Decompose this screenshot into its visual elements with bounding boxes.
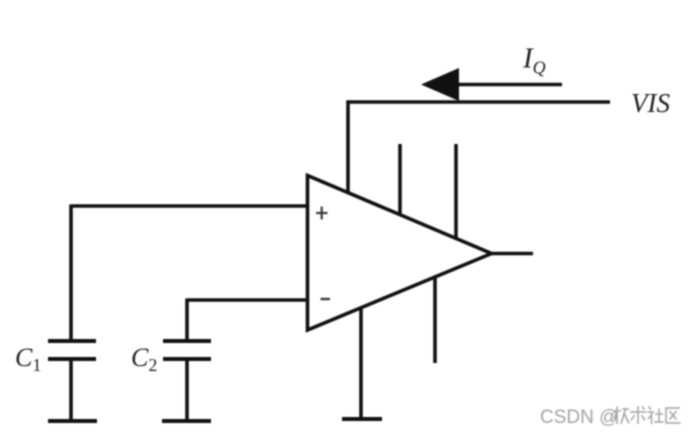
wire IQ arrow shaft xyxy=(450,83,562,87)
wire output xyxy=(491,252,533,256)
svg-text:C1: C1 xyxy=(15,343,41,375)
ground bar under C2 xyxy=(162,419,211,423)
svg-text:C2: C2 xyxy=(131,343,157,375)
wire C1 bottom vertical xyxy=(69,359,73,421)
svg-text:CSDN @: CSDN @ xyxy=(540,407,618,428)
wire bottom pin stub 2 xyxy=(433,276,437,363)
wire top pin stub 2 xyxy=(454,144,458,239)
capacitor C2 plates xyxy=(163,341,211,359)
op-amp plus sign xyxy=(316,207,328,220)
arrowhead of IQ current arrow xyxy=(421,68,459,101)
wire bottom pin to ground xyxy=(359,306,363,419)
ground bar under op-amp xyxy=(342,417,382,421)
op-amp U1 triangle xyxy=(308,176,492,331)
wire positive input horizontal xyxy=(71,204,308,208)
wire top pin stub 1 xyxy=(398,144,402,216)
svg-text:VIS: VIS xyxy=(631,88,670,118)
wire VIS net vertical drop to op-amp top edge xyxy=(346,101,350,194)
wire VIS net horizontal xyxy=(347,100,611,104)
watermark glyph qu xyxy=(666,408,681,423)
wire C2 bottom vertical xyxy=(185,359,189,421)
wire C1 top vertical xyxy=(69,205,73,342)
wire C2 top vertical xyxy=(185,299,189,342)
watermark glyph shu xyxy=(630,406,646,424)
op-amp minus sign xyxy=(321,298,331,300)
capacitor C1 plates xyxy=(48,341,96,359)
svg-text:IQ: IQ xyxy=(522,43,546,78)
watermark glyph she xyxy=(647,407,664,425)
wire negative input horizontal xyxy=(187,298,308,302)
watermark glyph ji xyxy=(613,407,629,425)
ground bar under C1 xyxy=(48,419,97,423)
